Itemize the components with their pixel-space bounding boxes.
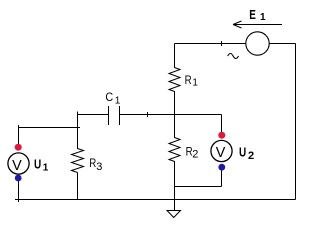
- wire U1 bottom: [18, 181, 20, 200]
- E1 arrow: [233, 21, 282, 28]
- label R3: [89, 156, 102, 173]
- wire U2 bottom vertical: [221, 171, 223, 187]
- wire U2 bottom horizontal to R2 branch: [175, 186, 222, 188]
- resistor R1: [169, 44, 180, 115]
- label U1: [34, 158, 49, 174]
- svg-text:V: V: [216, 145, 226, 161]
- label E1: [249, 7, 266, 23]
- svg-text:3: 3: [96, 161, 102, 173]
- ground: [167, 211, 181, 218]
- wire right rail: [295, 44, 297, 200]
- label C1: [105, 90, 120, 106]
- label U2: [239, 146, 254, 163]
- AC tilde mark: [228, 54, 239, 59]
- label R2: [186, 144, 199, 160]
- wire left vertical above R3: [77, 112, 79, 150]
- wire junction tick on top wire: [221, 41, 223, 46]
- svg-text:R: R: [185, 73, 192, 87]
- svg-text:U: U: [239, 146, 246, 160]
- voltmeter U2: [211, 132, 232, 171]
- wire from source E1 to right rail: [269, 43, 296, 45]
- capacitor C1: [109, 106, 120, 125]
- wire drop to U2: [221, 115, 223, 133]
- wire U1 vertical to meter: [18, 128, 20, 146]
- wire mid horizontal left of C1: [78, 114, 109, 116]
- voltmeter U1: [8, 144, 29, 182]
- wire junction tick on mid wire: [147, 112, 149, 117]
- svg-text:1: 1: [115, 96, 121, 107]
- wire top from R1 corner to source E1: [175, 43, 247, 45]
- svg-text:U: U: [34, 158, 41, 172]
- label R1: [185, 73, 199, 88]
- wire mid horizontal right of C1: [120, 114, 222, 116]
- svg-text:E: E: [249, 7, 256, 22]
- svg-text:1: 1: [192, 77, 198, 88]
- wire junction tick bottom left: [18, 197, 20, 202]
- wire bottom rail: [15, 199, 296, 201]
- resistor R3: [72, 149, 84, 200]
- svg-text:1: 1: [260, 12, 266, 23]
- resistor R2: [169, 115, 180, 212]
- AC source E1: [246, 32, 269, 55]
- svg-text:V: V: [12, 158, 22, 174]
- svg-text:C: C: [105, 90, 113, 104]
- svg-text:2: 2: [248, 150, 254, 162]
- svg-text:1: 1: [43, 163, 49, 174]
- svg-text:2: 2: [192, 148, 198, 160]
- wire U1 top horizontal: [19, 125, 81, 128]
